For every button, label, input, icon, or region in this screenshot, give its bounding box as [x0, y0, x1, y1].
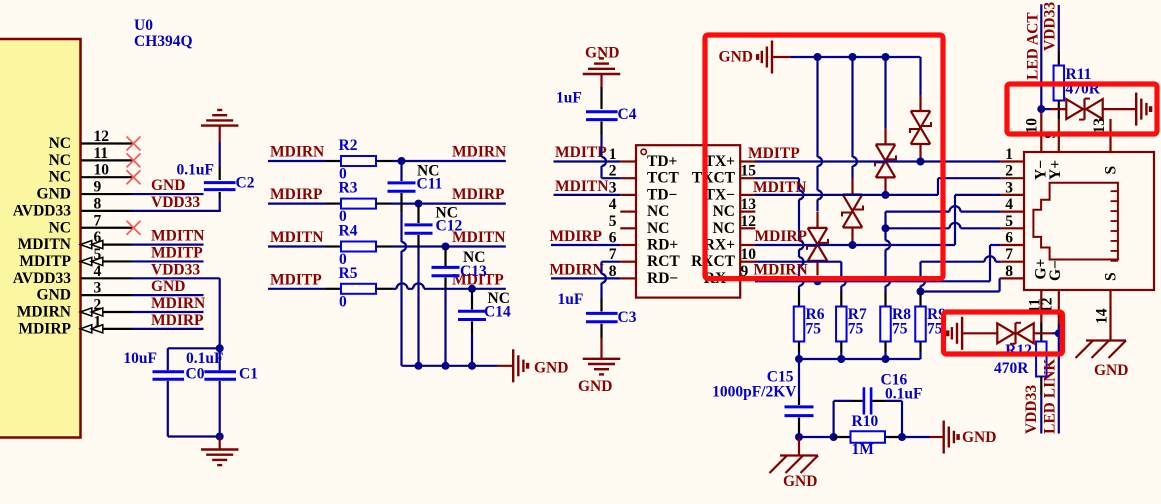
transformer T1 right pin (NC) [740, 227, 755, 229]
wire MDIRP left [268, 203, 326, 205]
svg-text:MDITN: MDITN [753, 179, 806, 196]
junction C12 rail [415, 362, 423, 370]
transformer T1 right pin (RXCT) [740, 261, 755, 263]
svg-text:RCT: RCT [647, 253, 680, 270]
earth ground symbol top rail [771, 41, 773, 74]
IC U0 pin 10 (NC) [81, 176, 133, 178]
wire GND pin9 [132, 193, 204, 195]
svg-text:TCT: TCT [647, 170, 680, 187]
svg-text:MDITP: MDITP [151, 244, 203, 261]
svg-text:VDD33: VDD33 [1023, 385, 1040, 434]
wire C16 left lead [832, 401, 834, 437]
svg-text:1uF: 1uF [558, 291, 584, 308]
svg-text:S: S [1103, 272, 1120, 281]
svg-text:MDITN: MDITN [151, 228, 204, 245]
junction pin4/pin5 tie [882, 224, 890, 232]
svg-text:1: 1 [1005, 146, 1013, 163]
svg-text:C2: C2 [236, 175, 255, 192]
resistor R9 [915, 307, 926, 342]
svg-text:C11: C11 [417, 176, 443, 193]
junction rail R7 [837, 355, 845, 363]
RJ45 pin 13 stub [1109, 119, 1111, 152]
svg-text:3: 3 [1005, 179, 1013, 196]
transformer T1 right pin (RX&#8722;) [740, 277, 755, 279]
svg-text:GND: GND [783, 473, 817, 490]
junction C16 right/R10 [898, 433, 906, 441]
IC U0 pin 1 (MDIRP) [81, 328, 132, 330]
svg-text:GND: GND [37, 287, 71, 304]
highlight box 1 (TVS array) [705, 35, 943, 279]
wire C0 bottom lead [167, 381, 169, 437]
RJ45 pin 2 stub [1001, 177, 1024, 179]
wire GND symbol to C2 [219, 142, 221, 167]
wire MDITP right [376, 288, 392, 290]
wire R10 left lead [834, 436, 851, 438]
svg-text:1uF: 1uF [556, 90, 582, 107]
RJ45 pin 12 lead [1058, 290, 1060, 324]
wire MDITP row (TX+ to RJ45 pin1) [755, 160, 1001, 162]
wire C12 upper lead [417, 206, 419, 223]
svg-text:AVDD33: AVDD33 [13, 270, 72, 287]
junction MDIRN/C11 [398, 157, 406, 165]
svg-text:7: 7 [1005, 246, 1013, 263]
svg-text:R3: R3 [339, 180, 358, 197]
svg-text:5: 5 [1005, 213, 1013, 230]
svg-text:15: 15 [741, 163, 757, 180]
IC U0 pin 9 (GND) [81, 193, 132, 195]
svg-text:4: 4 [94, 263, 102, 280]
wire D1 left lead [1041, 108, 1050, 110]
svg-text:TX−: TX− [705, 186, 736, 203]
svg-text:MDIRN: MDIRN [550, 262, 604, 279]
wire pin7/pin8 tie column [919, 262, 921, 277]
transformer T1 left pin 5 (NC) [620, 227, 636, 229]
transformer pin1 marker circle [641, 149, 646, 154]
earth ground symbol D2 [961, 317, 963, 350]
svg-text:RD+: RD+ [647, 237, 678, 254]
wire R7 bottom lead [840, 342, 842, 353]
capacitor C15 [785, 405, 814, 408]
svg-text:R10: R10 [852, 413, 879, 430]
capacitor C12 [405, 223, 433, 226]
svg-text:MDITN: MDITN [18, 236, 71, 253]
svg-text:MDITN: MDITN [555, 178, 608, 195]
wire C12 lower lead [417, 235, 419, 248]
wire GND to C4 [600, 87, 602, 109]
wire RJ45 pin8 jog [921, 290, 1000, 292]
svg-text:MDIRN: MDIRN [17, 304, 71, 321]
highlight box 3 (R12 LED clamp) [944, 312, 1063, 354]
wire MDIRN left [268, 160, 326, 162]
svg-text:U0: U0 [134, 17, 153, 34]
svg-text:NC: NC [647, 220, 669, 237]
svg-text:GND: GND [534, 360, 568, 377]
svg-text:MDITN: MDITN [270, 229, 323, 246]
svg-text:12: 12 [94, 128, 110, 145]
wire R9 bottom lead [919, 342, 921, 353]
resistor R12 [1036, 342, 1047, 377]
wire RCT to C3 [602, 261, 621, 263]
svg-text:NC: NC [49, 135, 71, 152]
wire MDIRP pin1 [132, 328, 204, 330]
resistor R6 [794, 307, 805, 342]
wire RJ45 pin7 row [921, 261, 985, 263]
svg-text:VDD33: VDD33 [151, 194, 200, 211]
transformer T1 left pin 1 (TD+) [620, 160, 636, 162]
svg-text:MDITP: MDITP [270, 271, 322, 288]
svg-text:C3: C3 [618, 309, 637, 326]
svg-text:TX+: TX+ [705, 153, 736, 170]
chassis ground below pin14 [1086, 339, 1126, 341]
wire C4 to TCT [600, 121, 602, 135]
RJ45 pin 6 stub [1001, 244, 1024, 246]
svg-text:13: 13 [1091, 118, 1108, 134]
svg-text:11: 11 [94, 145, 109, 162]
IC U0 pin 8 (AVDD33) [81, 210, 132, 212]
svg-text:C0: C0 [186, 366, 205, 383]
wire MDITN row (TX- to RJ45 pin2) [755, 194, 938, 196]
wire LED LINK line [1058, 333, 1060, 433]
wire TVS D3 upper [816, 57, 818, 157]
wire C11 upper lead [400, 161, 402, 181]
svg-text:10uF: 10uF [123, 350, 157, 367]
svg-text:C14: C14 [484, 304, 511, 321]
svg-text:GND: GND [37, 186, 71, 203]
junction pin7-8 tie / R9 [917, 288, 925, 296]
IC U0 pin 3 (GND) [81, 294, 132, 296]
svg-text:R2: R2 [339, 137, 358, 154]
wire C15 bottom lead [798, 418, 800, 431]
IC U0 pin 6 (MDITN) [81, 244, 132, 246]
wire TVS D4 upper [851, 57, 853, 157]
svg-text:TD+: TD+ [647, 153, 678, 170]
svg-text:1M: 1M [852, 441, 875, 458]
wire RXCT to R7 [755, 261, 841, 263]
svg-text:75: 75 [927, 321, 943, 338]
wire MDIRN row (RX- to RJ45 pin6) [755, 280, 990, 282]
svg-text:RD−: RD− [647, 270, 678, 287]
junction D3/MDIRN [814, 277, 822, 285]
wire C13 lower lead [444, 278, 446, 291]
wire LED ACT line [1040, 4, 1042, 109]
junction MDITN/C13 [442, 243, 450, 251]
transformer T1 right pin (NC) [740, 211, 755, 213]
wire C2 to VDD33 pin8 [219, 192, 221, 199]
resistor R4 [341, 242, 376, 252]
svg-text:8: 8 [1005, 263, 1013, 280]
wire C15 top lead [798, 359, 800, 398]
svg-text:5: 5 [609, 213, 617, 230]
wire MDIRN to RD- [551, 277, 620, 279]
IC U0 CH394Q body [0, 39, 81, 438]
junction VDD33/C1 [216, 344, 224, 352]
transformer T1 left pin 8 (RD&#8722;) [620, 277, 636, 279]
junction LED ACT / D1 [1037, 105, 1045, 113]
junction D2 / LED LINK [1055, 329, 1063, 337]
junction C13 rail [442, 362, 450, 370]
svg-text:GND: GND [719, 49, 753, 66]
svg-text:75: 75 [892, 321, 908, 338]
wire TXCT to R6 [755, 177, 799, 179]
svg-text:GND: GND [151, 177, 185, 194]
svg-text:MDIRN: MDIRN [452, 144, 506, 161]
transformer T1 left pin 6 (RD+) [620, 244, 636, 246]
RJ45 pin 4 stub [1001, 211, 1024, 213]
svg-text:VDD33: VDD33 [151, 261, 200, 278]
junction rail TVS D3 [814, 53, 822, 61]
svg-text:LED LINK: LED LINK [1041, 359, 1058, 434]
svg-text:MDIRP: MDIRP [151, 312, 204, 329]
IC U0 pin 7 (NC) [81, 227, 133, 229]
wire MDIRP row (RX+ to RJ45 pin3) [755, 244, 955, 246]
svg-text:10: 10 [1023, 118, 1040, 134]
svg-text:NC: NC [647, 203, 669, 220]
transformer T1 left pin 2 (TCT) [620, 177, 636, 179]
earth ground symbol right of R10 [943, 421, 945, 454]
wire C1 bottom lead [219, 381, 221, 437]
wire MDIRN right [376, 160, 392, 162]
transformer T1 right pin (TXCT) [740, 177, 755, 179]
resistor R10 [851, 431, 886, 443]
svg-text:2: 2 [1005, 163, 1013, 180]
wire VDD33 line top [1058, 5, 1060, 50]
svg-text:RX+: RX+ [704, 237, 735, 254]
wire R6 bottom lead [798, 342, 800, 353]
svg-text:0.1uF: 0.1uF [186, 350, 223, 367]
resistor R7 [836, 307, 847, 342]
junction D5/MDITN [882, 191, 890, 199]
svg-text:C12: C12 [436, 218, 463, 235]
transformer T1 body [636, 145, 740, 297]
svg-text:GND: GND [151, 278, 185, 295]
wire GND pin3 [132, 294, 204, 296]
wire R12 bottom VDD33 [1040, 377, 1042, 396]
svg-text:MDIRN: MDIRN [754, 262, 808, 279]
svg-text:NC: NC [49, 152, 71, 169]
wire D1 right lead [1103, 108, 1136, 110]
svg-text:AVDD33: AVDD33 [13, 202, 72, 219]
junction C14 rail [468, 362, 476, 370]
wire MDITN pin6 [132, 244, 204, 246]
svg-text:6: 6 [1005, 230, 1013, 247]
wire D2 left lead [962, 332, 997, 334]
wire C16 right lead [873, 400, 886, 402]
svg-text:RXCT: RXCT [691, 253, 736, 270]
wire C14 lower lead [471, 321, 473, 334]
wire C1 top lead [219, 348, 221, 370]
transformer T1 right pin (TX&#8722;) [740, 194, 755, 196]
junction C1 bottom [216, 433, 224, 441]
wire MDITN left [268, 245, 326, 247]
wire GND rail [791, 56, 921, 58]
wire MDITP to TD+ [554, 160, 621, 162]
wire VDD33 rail to C0 [168, 347, 220, 349]
capacitor C14 [458, 310, 486, 313]
wire R10 to GND [902, 436, 930, 438]
junction rail TVS D5 [882, 53, 890, 61]
junction C15/R10 row [795, 433, 803, 441]
wire R12 top lead [1040, 323, 1042, 342]
svg-text:MDITP: MDITP [555, 144, 607, 161]
svg-text:75: 75 [806, 321, 822, 338]
wire R6 column [798, 178, 800, 190]
svg-text:C13: C13 [460, 263, 487, 280]
RJ45 pin 14 stub [1109, 290, 1111, 341]
wire D2 right lead [1034, 332, 1052, 334]
RJ45 pin 3 stub [1001, 194, 1024, 196]
svg-text:S: S [1103, 166, 1120, 175]
wire R8 column [884, 228, 886, 240]
svg-text:GND: GND [578, 378, 612, 395]
wire C3 to GND [600, 324, 602, 338]
wire R8 bottom lead [884, 342, 886, 353]
resistor R11 [1054, 66, 1065, 101]
svg-text:R5: R5 [339, 265, 358, 282]
capacitor C2 [204, 181, 236, 184]
resistor R8 [880, 307, 891, 342]
capacitor C4 [586, 110, 618, 113]
junction D4/MDIRP [849, 241, 857, 249]
resistor R2 [341, 156, 376, 166]
svg-text:MDIRN: MDIRN [151, 295, 205, 312]
wire TVS D6 upper [919, 57, 921, 95]
junction MDITP/C14 [468, 285, 476, 293]
wire MDITP pin5 [132, 260, 204, 262]
svg-text:NC: NC [713, 220, 735, 237]
svg-text:Y+: Y+ [1047, 160, 1064, 180]
wire TVS D5 upper [884, 57, 886, 128]
svg-text:MDIRN: MDIRN [270, 144, 324, 161]
svg-text:8: 8 [94, 195, 102, 212]
wire MDIRP right [376, 203, 392, 205]
transformer T1 right pin (RX+) [740, 244, 755, 246]
TVS diode D6 [911, 110, 931, 112]
wire C0/C1 bottom rail [168, 435, 220, 437]
transformer T1 left pin 7 (RCT) [620, 261, 636, 263]
RJ45 connector J1 body [1024, 152, 1154, 290]
svg-text:0.1uF: 0.1uF [177, 162, 214, 179]
svg-text:9: 9 [94, 179, 102, 196]
capacitor C16 [863, 387, 866, 414]
svg-text:NC: NC [49, 169, 71, 186]
RJ45 pin 7 stub [1001, 261, 1024, 263]
svg-text:C1: C1 [239, 366, 258, 383]
highlight box 2 (R11 LED clamp) [1007, 84, 1157, 134]
transformer T1 left pin 4 (NC) [620, 211, 636, 213]
wire MDITN to TD- [554, 194, 621, 196]
svg-text:4: 4 [609, 196, 617, 213]
wire R10 right lead [885, 436, 902, 438]
wire MDIRN pin2 [132, 311, 204, 313]
RJ45 pin 8 stub [1001, 277, 1024, 279]
wire MDITN right [376, 245, 392, 247]
TVS diode D3 [808, 227, 828, 229]
capacitor C13 [432, 266, 460, 269]
IC U0 pin 12 (NC) [81, 142, 133, 144]
TVS diode D2 (LED LINK clamp) [997, 323, 1014, 343]
wire C13 upper lead [444, 249, 446, 267]
wire R9 top lead [919, 292, 921, 307]
wire RJ45 pin4 row [884, 212, 886, 229]
TVS diode D4 [843, 193, 863, 195]
svg-text:MDITP: MDITP [19, 253, 71, 270]
svg-text:4: 4 [1005, 196, 1013, 213]
wire C11 lower lead [400, 193, 402, 212]
IC U0 pin 11 (NC) [81, 159, 133, 161]
RJ45 pin 10 lead [1040, 112, 1042, 152]
junction C16 left/R10 [830, 433, 838, 441]
transformer T1 left pin 3 (TD&#8722;) [620, 194, 636, 196]
power ground symbol below C0/C1 [219, 437, 221, 450]
svg-text:MDIRP: MDIRP [452, 186, 505, 203]
svg-text:NC: NC [713, 203, 735, 220]
capacitor C0 [153, 370, 185, 373]
svg-text:GND: GND [962, 429, 996, 446]
svg-text:7: 7 [94, 212, 102, 229]
power ground symbol above C2 [201, 124, 239, 126]
wire C14 upper lead [471, 291, 473, 310]
capacitor C11 [388, 181, 416, 184]
RJ45 pin 1 stub [1001, 160, 1024, 162]
chassis ground below C15 [798, 437, 800, 456]
wire termination rail [799, 358, 921, 360]
resistor R3 [341, 199, 376, 209]
wire R10 row left [799, 436, 834, 438]
junction rail R6/C15 [795, 355, 803, 363]
wire R7 column [840, 262, 842, 277]
svg-text:MDIRP: MDIRP [550, 228, 603, 245]
RJ45 jack symbol [1033, 183, 1118, 260]
svg-text:MDIRP: MDIRP [270, 186, 323, 203]
wire MDIRP to RD+ [551, 244, 620, 246]
junction rail TVS D4 [849, 53, 857, 61]
svg-text:NC: NC [49, 219, 71, 236]
wire MDITP left [268, 288, 326, 290]
wire VDD33 pin4 to C0/C1 [132, 277, 220, 279]
svg-text:CH394Q: CH394Q [134, 33, 193, 50]
capacitor C1 [204, 370, 236, 373]
wire R11 bottom lead [1058, 100, 1060, 119]
power ground symbol above C4 [583, 73, 621, 75]
svg-text:0: 0 [339, 293, 347, 310]
wire pin12 to D2 junction [1058, 324, 1060, 334]
IC U0 pin 4 (AVDD33) [81, 277, 132, 279]
junction D6/MDITP [917, 158, 925, 166]
svg-text:MDIRP: MDIRP [755, 228, 808, 245]
svg-text:VDD33: VDD33 [1042, 2, 1059, 51]
svg-text:G−: G− [1047, 260, 1064, 281]
svg-text:75: 75 [848, 321, 864, 338]
svg-text:GND: GND [1094, 362, 1128, 379]
wire C11-C14 ground rail [402, 365, 498, 367]
power ground symbol below C3 [583, 358, 621, 360]
earth ground symbol D1 [1135, 93, 1137, 126]
svg-text:C4: C4 [618, 106, 637, 123]
svg-text:MDIRP: MDIRP [18, 320, 71, 337]
TVS diode D5 [876, 143, 896, 145]
svg-text:14: 14 [1094, 308, 1111, 324]
capacitor C3 [586, 312, 618, 315]
IC U0 pin 2 (MDIRN) [81, 311, 132, 313]
junction rail R8 [882, 355, 890, 363]
svg-text:TD−: TD− [647, 186, 678, 203]
svg-text:3: 3 [94, 280, 102, 297]
TVS diode D1 (LED ACT clamp) [1066, 99, 1083, 119]
resistor R5 [341, 284, 376, 294]
wire RJ45 pin5 row [886, 227, 950, 229]
junction MDIRP/C12 [415, 200, 423, 208]
RJ45 pin 5 stub [1001, 227, 1024, 229]
